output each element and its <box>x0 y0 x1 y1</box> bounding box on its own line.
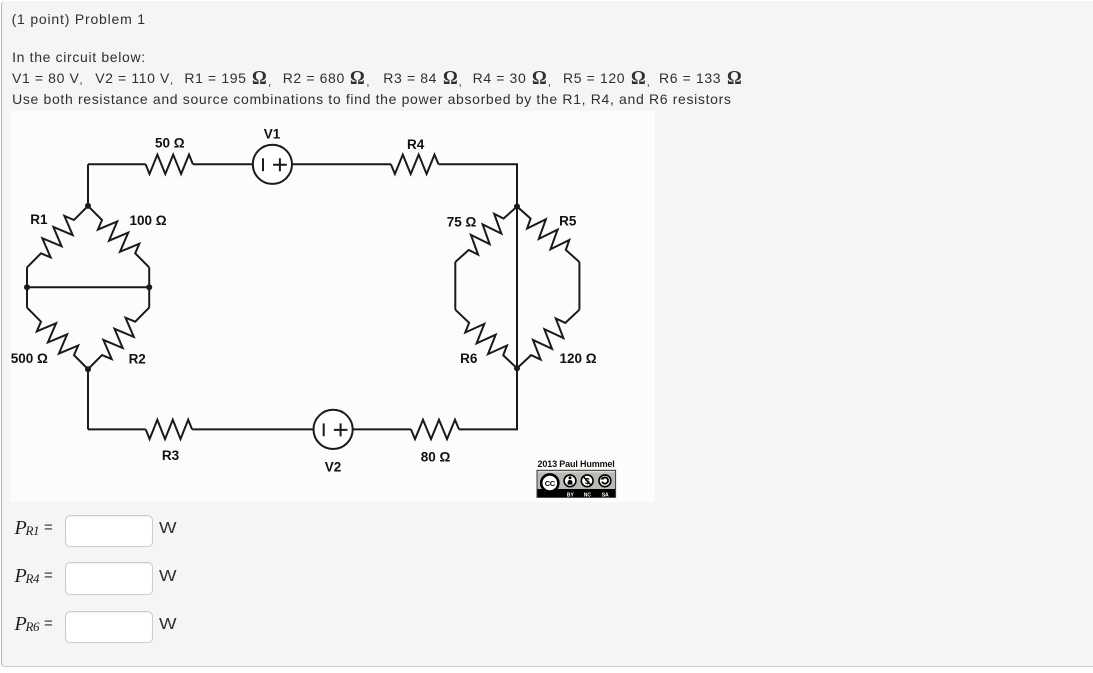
source V2 <box>314 410 353 449</box>
wire 50ohm to V1 <box>193 163 252 165</box>
wire left vertical <box>87 164 89 206</box>
node diamond top <box>85 203 91 209</box>
wire V1 to R4 <box>293 163 391 165</box>
svg-text:SA: SA <box>602 493 609 499</box>
resistor R6 <box>455 310 517 369</box>
svg-text:R4: R4 <box>407 137 425 152</box>
wire bottom-left <box>88 428 146 430</box>
wire R3 to V2 <box>192 428 313 430</box>
node diamond bottom <box>85 366 91 372</box>
svg-text:80 Ω: 80 Ω <box>421 450 451 465</box>
svg-text:NC: NC <box>584 493 592 499</box>
wire R4 to top-right corner and down <box>439 164 518 206</box>
node right top <box>514 204 520 210</box>
cc badge <box>537 470 616 498</box>
wire V2 to 80ohm <box>354 428 412 430</box>
svg-text:R5: R5 <box>559 214 577 229</box>
svg-text:R3: R3 <box>162 448 180 463</box>
source V1 <box>253 145 292 184</box>
svg-text:120 Ω: 120 Ω <box>559 351 596 366</box>
resistor 100ohm <box>88 206 149 268</box>
resistor 50ohm <box>146 155 193 174</box>
svg-text:100 Ω: 100 Ω <box>129 213 166 228</box>
svg-text:R1: R1 <box>30 212 48 227</box>
svg-text:V1: V1 <box>264 126 281 141</box>
wire right middle vertical <box>516 207 518 369</box>
wire mid-right down <box>148 287 150 307</box>
resistor 75ohm <box>455 207 517 263</box>
wire R1 to mid-left <box>26 267 28 287</box>
wire 80ohm to bottom-right corner <box>459 368 517 429</box>
svg-text:R2: R2 <box>129 352 146 367</box>
wire R5 to 120ohm <box>578 262 580 310</box>
svg-text:50 Ω: 50 Ω <box>155 136 185 151</box>
node right bottom <box>514 365 520 371</box>
svg-text:2013 Paul Hummel: 2013 Paul Hummel <box>538 459 615 469</box>
resistor R2 <box>88 308 149 370</box>
svg-text:BY: BY <box>567 493 575 499</box>
resistor 120ohm <box>517 310 579 369</box>
wire 100ohm to mid-right <box>148 267 150 287</box>
wire diamond bottom down <box>87 369 89 429</box>
svg-text:75 Ω: 75 Ω <box>447 214 477 229</box>
wire top-left <box>88 163 146 165</box>
resistor R3 <box>146 420 192 439</box>
resistor R5 <box>517 207 579 263</box>
resistor R4 <box>391 155 439 174</box>
node diamond right <box>146 284 152 290</box>
svg-text:V2: V2 <box>325 459 342 474</box>
wire bridge middle <box>27 286 149 288</box>
wire 75ohm to R6 <box>454 262 456 310</box>
svg-text:R6: R6 <box>460 351 478 366</box>
resistor R1 <box>27 206 88 268</box>
node diamond left <box>24 284 30 290</box>
resistor 500ohm <box>27 308 88 370</box>
resistor 80ohm <box>411 420 459 439</box>
svg-text:CC: CC <box>545 479 556 488</box>
wire mid-left down <box>26 287 28 307</box>
svg-text:500 Ω: 500 Ω <box>11 351 48 366</box>
